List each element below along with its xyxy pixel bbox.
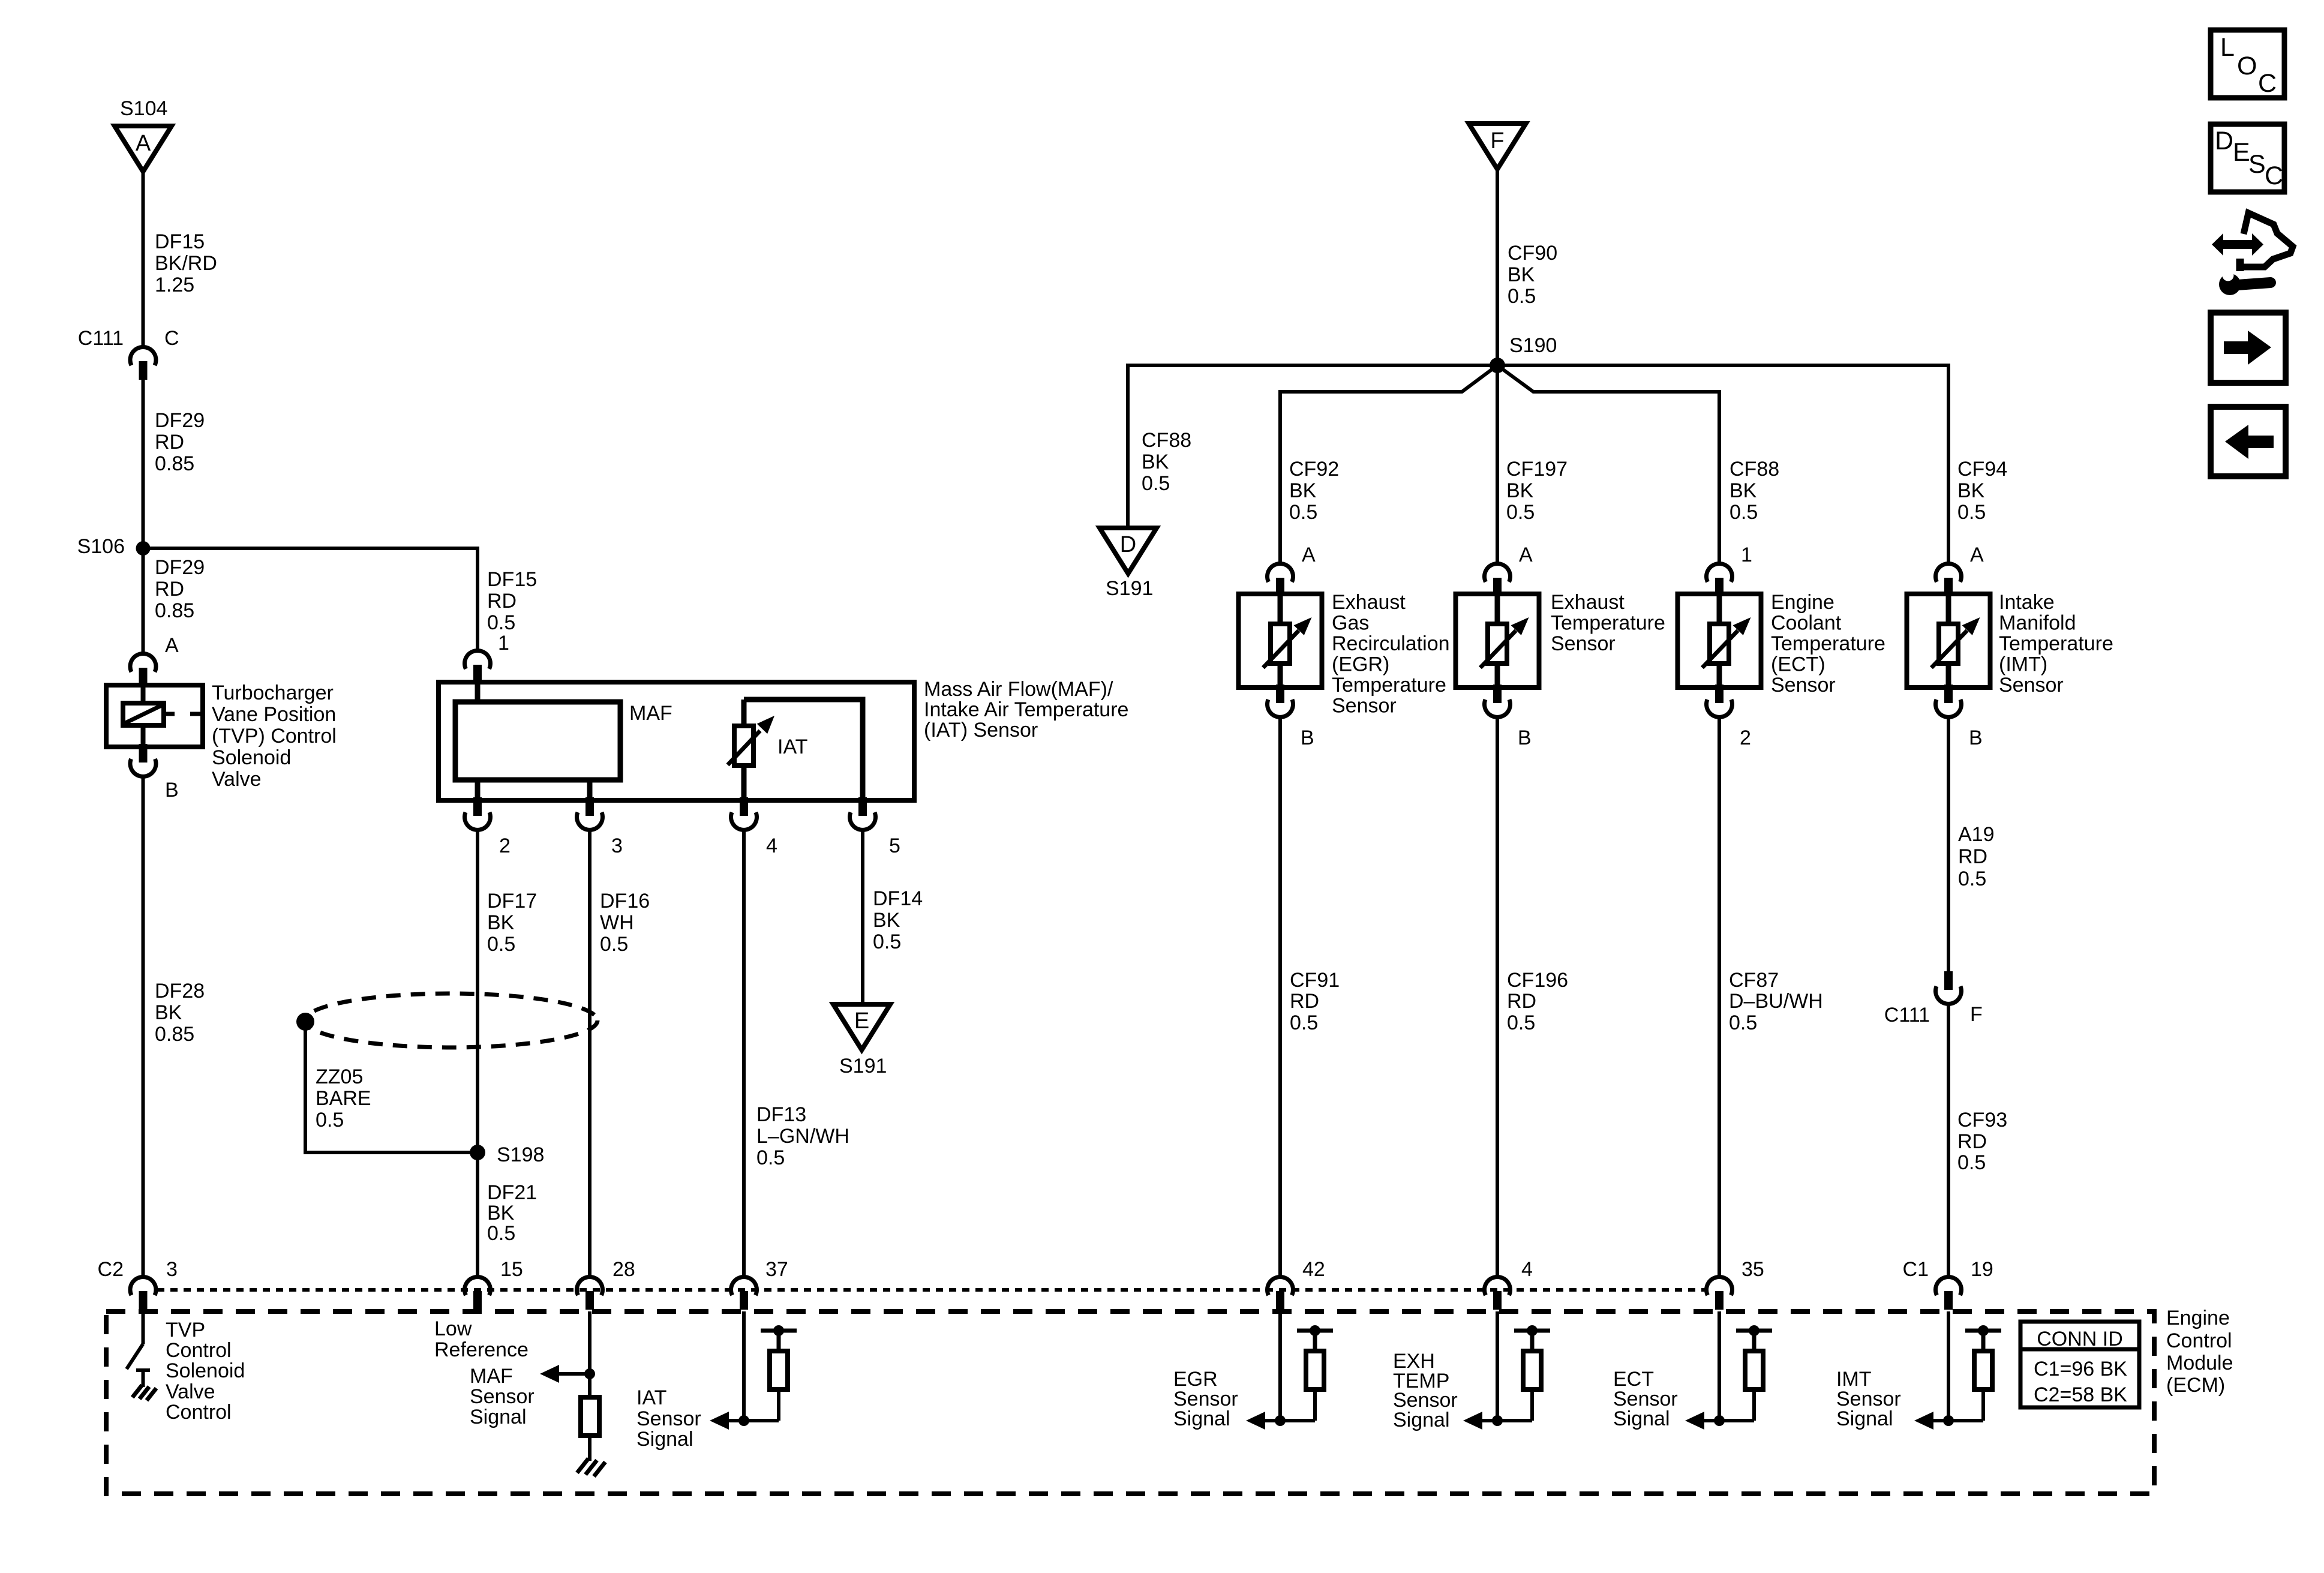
IMT Sensor Signal label [1836,1368,1901,1430]
back arrow [2225,425,2274,459]
svg-text:0.5: 0.5 [1957,1151,1986,1174]
svg-text:IAT: IAT [636,1386,666,1409]
svg-text:TVP: TVP [166,1319,205,1341]
svg-text:C: C [2258,69,2277,98]
svg-text:O: O [2237,52,2257,80]
svg-text:A: A [165,634,179,657]
IMT sensor box [1907,594,1990,688]
svg-text:Recirculation: Recirculation [1332,632,1450,655]
wire DF15 BK/RD 1.25 [142,170,145,347]
svg-text:L–GN/WH: L–GN/WH [756,1125,849,1148]
forward arrow [2224,331,2271,365]
svg-text:Exhaust: Exhaust [1551,591,1625,614]
wire label DF21 BK 0.5 [487,1181,537,1245]
svg-text:BK: BK [1142,451,1169,473]
svg-text:Exhaust: Exhaust [1332,591,1406,614]
branch wire CF92 to EGR [1280,365,1497,563]
svg-text:Sensor: Sensor [1999,674,2064,697]
svg-text:B: B [1969,727,1983,749]
svg-text:CF90: CF90 [1508,242,1557,265]
service icon engine outline [2242,213,2293,267]
EXH TEMP signal arrow [1463,1412,1497,1430]
wire DF28 BK 0.85 [142,775,145,1276]
svg-text:37: 37 [765,1258,788,1281]
connector Exhaust temperature sensor pin A [1484,563,1510,596]
wire CF93 RD 0.5 [1947,1002,1950,1276]
svg-text:BK: BK [1506,479,1534,502]
svg-text:Signal: Signal [1613,1407,1670,1430]
svg-text:DF15: DF15 [487,568,537,591]
svg-text:D–BU/WH: D–BU/WH [1729,990,1823,1013]
connector TVP pin A [130,653,156,686]
wire label DF29 RD 0.85 (lower) [155,556,205,622]
IAT Sensor Signal label [636,1386,701,1451]
wire label DF14 BK 0.5 [873,887,923,953]
wire label CF94 BK 0.5 [1957,458,2007,524]
svg-text:Vane Position: Vane Position [212,703,336,726]
svg-text:0.5: 0.5 [1730,501,1758,524]
bus wire to CF88/D [1128,365,1497,538]
connector ECM pin 42 [1268,1277,1293,1310]
wire DF29 RD 0.85 (lower) [142,548,145,653]
svg-text:DF28: DF28 [155,980,205,1002]
svg-text:A19: A19 [1958,823,1995,846]
splice S190 [1490,358,1505,373]
svg-text:BK/RD: BK/RD [155,252,217,275]
svg-text:Engine: Engine [1771,591,1834,614]
shield splice dot [296,1013,314,1031]
svg-text:MAF: MAF [470,1365,513,1388]
svg-text:S104: S104 [120,97,167,120]
svg-text:Signal: Signal [470,1406,527,1428]
svg-text:0.5: 0.5 [487,611,515,634]
connector ECM pin 15 [465,1277,491,1310]
wire CF197 to EXH [1496,365,1499,563]
svg-text:BK: BK [487,911,515,934]
svg-text:S198: S198 [497,1143,544,1166]
svg-text:(IAT) Sensor: (IAT) Sensor [924,719,1038,742]
svg-text:B: B [165,779,179,801]
ECT Sensor Signal label [1613,1368,1678,1430]
TVP control label [166,1319,245,1424]
EGR pullup (pin 42) [1275,1311,1333,1426]
svg-text:Control: Control [166,1339,232,1362]
svg-text:DF29: DF29 [155,556,205,579]
svg-text:Temperature: Temperature [1999,632,2113,655]
svg-text:CF93: CF93 [1957,1109,2007,1131]
MAF signal junction [584,1368,595,1379]
Exhaust temperature sensor name label [1551,591,1665,655]
svg-text:(IMT): (IMT) [1999,653,2047,676]
ground triangle E (S191) [833,1004,890,1050]
splice S198 [470,1145,485,1160]
svg-text:Control: Control [2166,1329,2232,1352]
TVP solenoid valve box [106,685,203,747]
svg-text:0.85: 0.85 [155,452,194,475]
service icon double arrow [2212,233,2263,256]
EGR signal arrow [1246,1412,1280,1430]
svg-text:Manifold: Manifold [1999,612,2076,635]
svg-text:C2=58 BK: C2=58 BK [2034,1383,2127,1406]
connector IMT sensor pin B [1936,685,1962,717]
svg-text:4: 4 [1521,1258,1533,1281]
svg-text:DF14: DF14 [873,887,923,910]
IMT signal arrow [1914,1412,1948,1430]
ECT sensor name label [1771,591,1885,697]
svg-text:Temperature: Temperature [1332,674,1446,697]
svg-text:CONN ID: CONN ID [2037,1328,2123,1350]
svg-text:Sensor: Sensor [1771,674,1836,697]
wire DF16 WH 0.5 [588,828,591,1276]
EGR Sensor Signal label [1173,1368,1238,1430]
svg-text:0.5: 0.5 [756,1146,785,1169]
svg-text:28: 28 [612,1258,635,1281]
wire DF29 RD 0.85 (upper) [142,379,145,548]
LOC icon box [2211,30,2284,98]
svg-text:A: A [1302,544,1316,566]
svg-text:BK: BK [1508,263,1535,286]
svg-text:(TVP) Control: (TVP) Control [212,725,337,748]
ground triangle D (S191) [1100,528,1157,574]
wire CF196 RD 0.5 [1496,715,1499,1276]
connector C111 pin C [130,347,156,380]
svg-text:RD: RD [155,431,184,454]
ECM connector dotted line [157,1288,1706,1292]
wire DF17 BK 0.5 [476,828,479,1276]
svg-text:3: 3 [611,834,623,857]
wire S106 to MAF pin 1 (DF15 RD 0.5) [143,548,478,650]
EXH TEMP pullup (pin 4) [1492,1311,1550,1426]
connector MAF pin 5 [850,797,876,830]
ECM pin numbers [166,1258,1993,1281]
MAF wiring pin 3 [587,780,593,800]
connector MAF pin 4 [731,797,757,830]
svg-text:B: B [1518,727,1532,749]
svg-text:DF13: DF13 [756,1103,806,1126]
svg-text:WH: WH [600,911,634,934]
svg-text:1.25: 1.25 [155,274,194,296]
TVP control switch [127,1309,150,1387]
wire label CF88 BK 0.5 (ECT branch) [1730,458,1779,524]
svg-text:0.5: 0.5 [316,1109,344,1131]
svg-text:D: D [2215,127,2233,155]
svg-text:CF94: CF94 [1957,458,2007,481]
svg-text:Sensor: Sensor [470,1385,535,1408]
back arrow box [2211,407,2286,476]
connector ECT sensor pin 1 [1707,563,1733,596]
svg-text:Temperature: Temperature [1771,632,1885,655]
svg-text:RD: RD [487,590,517,613]
svg-text:0.5: 0.5 [487,933,515,956]
forward arrow box [2211,313,2286,383]
svg-text:Mass Air Flow(MAF)/: Mass Air Flow(MAF)/ [924,678,1113,701]
wire DF13 L-GN/WH 0.5 [742,828,746,1276]
svg-text:IAT: IAT [777,736,807,758]
DESC icon box [2211,124,2284,192]
connector ECM pin 19 [1936,1277,1962,1310]
svg-text:C1=96 BK: C1=96 BK [2034,1358,2127,1380]
svg-text:CF87: CF87 [1729,969,1779,992]
MAF sensor name label [924,678,1128,742]
connector ECM pin 3 [130,1277,156,1310]
svg-text:RD: RD [1957,1130,1987,1153]
wire CF91 RD 0.5 [1278,715,1282,1276]
svg-text:Temperature: Temperature [1551,612,1665,635]
svg-text:35: 35 [1742,1258,1764,1281]
svg-text:CF197: CF197 [1506,458,1568,481]
wire label DF29 RD 0.85 (upper) [155,409,205,475]
svg-text:CF196: CF196 [1507,969,1568,992]
svg-text:0.5: 0.5 [1507,1011,1535,1034]
svg-text:BK: BK [487,1202,515,1224]
svg-text:F: F [1490,128,1504,154]
connector ECM pin 35 [1707,1277,1733,1310]
svg-text:Sensor: Sensor [1551,632,1616,655]
EXH TEMP Sensor Signal label [1393,1350,1458,1431]
svg-text:BK: BK [1289,479,1317,502]
wire label CF196 RD 0.5 [1507,969,1568,1034]
svg-text:Signal: Signal [1173,1407,1230,1430]
MAF signal wire [588,1311,591,1374]
svg-text:RD: RD [155,578,184,601]
svg-text:S: S [2248,150,2266,179]
connector ECM pin 4 [1485,1277,1511,1310]
svg-text:F: F [1970,1003,1983,1026]
svg-text:S190: S190 [1509,334,1557,357]
svg-text:RD: RD [1290,990,1319,1013]
svg-text:S191: S191 [1106,577,1153,600]
ground (MAF) [577,1458,605,1476]
svg-text:C111: C111 [1884,1004,1930,1026]
connector IMT sensor pin A [1936,563,1962,596]
svg-text:(ECT): (ECT) [1771,653,1825,676]
svg-text:ZZ05: ZZ05 [316,1065,363,1088]
connector MAF pin 2 [464,797,490,830]
svg-text:BK: BK [1957,479,1985,502]
svg-text:5: 5 [889,834,900,857]
wire DF14 BK 0.5 [861,828,864,1015]
svg-text:B: B [1301,727,1314,749]
svg-text:Module: Module [2166,1352,2233,1374]
svg-text:Intake: Intake [1999,591,2055,614]
svg-text:BK: BK [1730,479,1757,502]
svg-text:A: A [1970,544,1984,566]
svg-text:0.85: 0.85 [155,599,194,622]
ECM dashed border [106,1311,2154,1494]
connector ECM pin 28 [577,1277,603,1310]
solenoid coil symbol [123,703,164,725]
svg-text:0.5: 0.5 [1729,1011,1757,1034]
svg-text:DF21: DF21 [487,1181,537,1204]
svg-text:(ECM): (ECM) [2166,1374,2225,1397]
IAT wiring to pin 4 [741,766,747,800]
svg-text:15: 15 [500,1258,523,1281]
wire label DF15 RD 0.5 [487,568,537,634]
svg-text:A: A [136,131,151,156]
connector Exhaust temperature sensor pin B [1485,685,1511,717]
svg-text:Solenoid: Solenoid [212,746,291,769]
wire label CF88 BK 0.5 (S191 branch) [1142,429,1191,495]
svg-text:RD: RD [1507,990,1536,1013]
MAF/IAT sensor outer box [439,682,914,800]
IMT pullup (pin 19) [1943,1311,2001,1426]
MAF wiring pin 2 [475,780,481,800]
connector ECM pin 37 [731,1277,757,1310]
ECT signal arrow [1685,1412,1719,1430]
svg-text:S191: S191 [839,1055,887,1077]
wire label DF17 BK 0.5 [487,890,537,956]
svg-text:RD: RD [1958,845,1987,868]
svg-text:0.5: 0.5 [1958,867,1986,890]
service icon engine lower cap [2236,259,2244,271]
LOC icon letters [2220,33,2277,98]
svg-text:DF29: DF29 [155,409,205,432]
wire label DF16 WH 0.5 [600,890,650,956]
wire CF87 D-BU/WH 0.5 [1718,715,1721,1276]
MAF pin numbers [499,834,900,857]
svg-text:D: D [1120,532,1136,557]
svg-text:C2: C2 [98,1258,124,1281]
svg-text:Signal: Signal [1836,1407,1893,1430]
IAT arrow [728,716,774,765]
wire label CF92 BK 0.5 [1289,458,1339,524]
svg-text:0.5: 0.5 [1142,472,1170,495]
wire CF90 BK 0.5 [1496,168,1499,365]
svg-text:1: 1 [498,632,509,655]
DESC icon letters [2215,127,2283,190]
svg-text:Engine: Engine [2166,1307,2230,1329]
svg-text:A: A [1519,544,1533,566]
svg-text:CF92: CF92 [1289,458,1339,481]
svg-text:4: 4 [766,834,777,857]
ECT pullup (pin 35) [1714,1311,1772,1426]
splice S106 [136,541,151,556]
svg-text:0.85: 0.85 [155,1023,194,1046]
CONN ID text [2034,1328,2127,1406]
connector EGR temperature sensor pin B [1268,685,1293,717]
svg-text:C: C [164,327,179,350]
svg-text:S106: S106 [77,535,125,558]
svg-text:BK: BK [873,909,900,932]
svg-text:2: 2 [1740,727,1751,749]
ECM name label [2166,1307,2233,1397]
wire label CF87 D-BU/WH 0.5 [1729,969,1823,1034]
svg-text:BARE: BARE [316,1087,371,1110]
svg-text:Gas: Gas [1332,612,1369,635]
wire label DF28 BK 0.85 [155,980,205,1046]
wire label DF13 L-GN/WH 0.5 [756,1103,849,1169]
svg-text:Sensor: Sensor [636,1407,701,1430]
svg-text:42: 42 [1302,1258,1325,1281]
svg-text:Solenoid: Solenoid [166,1359,245,1382]
svg-text:2: 2 [499,834,511,857]
svg-text:0.5: 0.5 [1957,501,1986,524]
EGR temperature sensor name label [1332,591,1450,718]
connector MAF pin 3 [577,797,603,830]
svg-text:Signal: Signal [636,1428,693,1451]
bus wire to CF94/IMT [1497,365,1948,563]
IMT sensor name label [1999,591,2113,697]
off-page triangle A (S104) [115,126,172,172]
MAF signal arrow [540,1365,590,1383]
svg-text:Low: Low [434,1317,472,1340]
connector MAF pin 1 [465,650,491,683]
wire label CF90 BK 0.5 [1508,242,1557,308]
wire label CF91 RD 0.5 [1290,969,1340,1034]
svg-text:Control: Control [166,1401,232,1424]
TVP valve name label [212,682,337,791]
ground (TVP switch) [133,1385,157,1401]
connector EGR temperature sensor pin A [1268,563,1293,596]
MAF pulldown resistor [581,1374,599,1461]
Low Reference label [434,1317,529,1361]
svg-text:DF17: DF17 [487,890,537,912]
svg-text:BK: BK [155,1001,182,1024]
wire label CF197 BK 0.5 [1506,458,1568,524]
ECT sensor box [1678,594,1761,688]
shield ellipse ZZ05 [305,993,597,1047]
svg-text:Valve: Valve [166,1380,215,1403]
IAT thermistor [734,700,753,766]
wire label ZZ05 BARE 0.5 [316,1065,371,1131]
off-page triangle F [1469,124,1526,169]
svg-text:19: 19 [1971,1258,1993,1281]
dashed link coil to box [164,712,201,716]
svg-text:E: E [854,1008,869,1034]
IAT pullup (pin 37) [738,1311,797,1426]
wire ZZ05 BARE 0.5 [305,1022,478,1152]
svg-text:CF88: CF88 [1142,429,1191,452]
svg-text:C1: C1 [1903,1258,1929,1281]
Exhaust temperature sensor box [1456,594,1539,688]
svg-text:E: E [2233,138,2250,167]
wire label A19 RD 0.5 [1958,823,1995,890]
connector TVP pin B [130,744,156,776]
wire A19 RD 0.5 [1947,715,1950,973]
svg-text:0.5: 0.5 [487,1222,515,1245]
svg-text:Turbocharger: Turbocharger [212,682,334,704]
svg-text:DF16: DF16 [600,890,650,912]
svg-text:0.5: 0.5 [1289,501,1317,524]
svg-text:Signal: Signal [1393,1409,1450,1431]
MAF inner module box [455,680,620,780]
svg-text:MAF: MAF [629,702,672,725]
svg-text:0.5: 0.5 [1508,285,1536,308]
svg-text:Intake Air Temperature: Intake Air Temperature [924,698,1128,721]
service icon wrench [2219,270,2271,296]
svg-text:Coolant: Coolant [1771,612,1842,635]
svg-text:CF91: CF91 [1290,969,1340,992]
CONN ID table [2020,1322,2139,1407]
svg-text:0.5: 0.5 [1290,1011,1318,1034]
svg-text:3: 3 [166,1258,178,1281]
wire label DF15 BK/RD 1.25 [155,230,217,296]
MAF Sensor Signal label [470,1365,535,1428]
svg-text:Valve: Valve [212,768,262,791]
wire label CF93 RD 0.5 [1957,1109,2007,1174]
EGR temperature sensor box [1239,594,1322,688]
svg-text:0.5: 0.5 [873,930,901,953]
svg-text:C111: C111 [78,327,124,350]
svg-text:0.5: 0.5 [600,933,628,956]
connector ECT sensor pin 2 [1707,685,1733,717]
IAT wiring to pin 5 [744,700,863,800]
svg-text:L: L [2220,33,2235,62]
svg-text:(EGR): (EGR) [1332,653,1389,676]
svg-text:Sensor: Sensor [1332,695,1397,718]
svg-text:CF88: CF88 [1730,458,1779,481]
svg-text:1: 1 [1741,544,1752,566]
